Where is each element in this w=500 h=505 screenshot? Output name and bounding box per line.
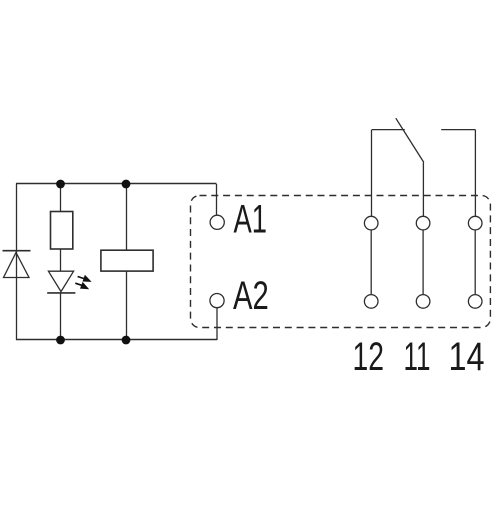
junction node bottom-right bbox=[122, 336, 131, 345]
terminal A2 bbox=[210, 294, 224, 308]
svg-text:A1: A1 bbox=[234, 198, 268, 242]
junction node top-right bbox=[122, 180, 131, 189]
wire contact 14 lower bbox=[474, 230, 476, 295]
junction node top-left bbox=[56, 180, 65, 189]
LED arrow upper tail bbox=[78, 277, 86, 280]
terminal 11 bottom bbox=[416, 295, 430, 309]
svg-text:12: 12 bbox=[353, 335, 385, 379]
wire A2 lead bbox=[216, 308, 218, 340]
LED triangle bbox=[48, 271, 73, 291]
wire bottom bus bbox=[16, 339, 217, 341]
diode V1 cathode bar bbox=[3, 250, 31, 252]
contact 12 fixed bar bbox=[372, 129, 405, 131]
svg-text:A2: A2 bbox=[233, 274, 269, 318]
relay coil K1 bbox=[101, 250, 153, 271]
wire contact 14 upper bbox=[474, 130, 476, 217]
terminal 14 top bbox=[468, 216, 482, 230]
wire contact 11 lower bbox=[422, 230, 424, 295]
contact 14 fixed bar bbox=[441, 129, 475, 131]
junction node bottom-left bbox=[56, 336, 65, 345]
wire coil branch lower bbox=[126, 271, 128, 340]
resistor R1 bbox=[51, 212, 73, 250]
svg-text:14: 14 bbox=[449, 335, 485, 379]
svg-text:11: 11 bbox=[404, 335, 431, 379]
diode V1 triangle bbox=[4, 253, 30, 278]
wire contact 12 lower bbox=[370, 230, 372, 295]
wire top bus bbox=[16, 183, 217, 185]
terminal 14 bottom bbox=[468, 295, 482, 309]
terminal 12 top bbox=[364, 216, 378, 230]
switch lever 11 bbox=[396, 118, 424, 162]
wire LED branch lower bbox=[60, 293, 62, 340]
LED arrow upper head bbox=[83, 275, 92, 282]
wire left side bbox=[16, 184, 18, 341]
wire resistor branch upper bbox=[60, 184, 62, 212]
terminal A1 bbox=[210, 215, 224, 229]
wire A1 lead bbox=[216, 184, 218, 215]
terminal 12 bottom bbox=[364, 295, 378, 309]
LED arrow lower tail bbox=[75, 283, 83, 286]
LED arrow lower head bbox=[80, 282, 89, 289]
wire contact 12 upper bbox=[371, 130, 373, 217]
wire resistor to LED bbox=[60, 249, 62, 271]
terminal 11 top bbox=[416, 216, 430, 230]
wire contact 11 upper bbox=[422, 162, 424, 216]
wire coil branch upper bbox=[126, 184, 128, 250]
relay outline dashed box bbox=[191, 196, 491, 328]
LED cathode bar bbox=[47, 292, 75, 294]
